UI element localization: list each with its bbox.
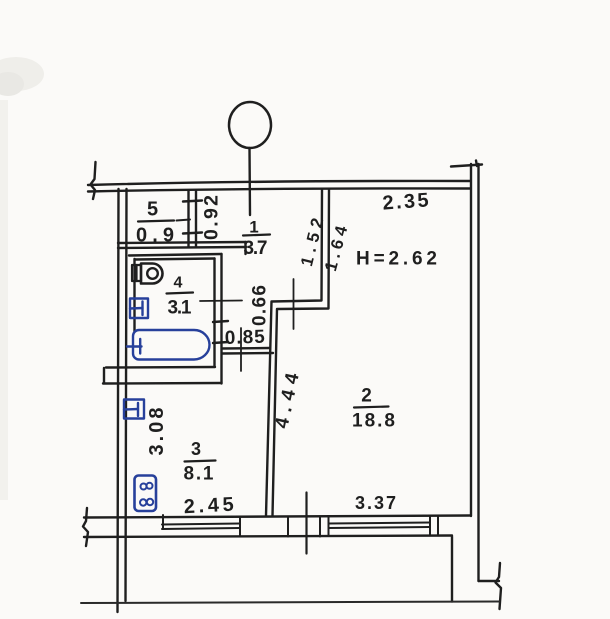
svg-text:2.35: 2.35 [382,189,429,214]
svg-text:3.7: 3.7 [244,238,268,259]
svg-text:18.8: 18.8 [352,411,395,432]
svg-text:0.66: 0.66 [250,285,271,326]
svg-text:0.9: 0.9 [136,225,174,247]
svg-text:3.08: 3.08 [146,408,168,456]
svg-text:3: 3 [191,439,201,459]
svg-text:2: 2 [361,386,372,407]
svg-text:0.85: 0.85 [224,327,265,349]
svg-text:4: 4 [174,275,183,292]
svg-text:5: 5 [147,199,158,221]
svg-text:8.1: 8.1 [184,464,214,485]
svg-text:3.37: 3.37 [355,493,396,513]
svg-text:1: 1 [249,218,258,237]
svg-text:0.92: 0.92 [201,195,223,240]
svg-text:2.45: 2.45 [183,494,234,519]
svg-text:3.1: 3.1 [168,298,192,319]
